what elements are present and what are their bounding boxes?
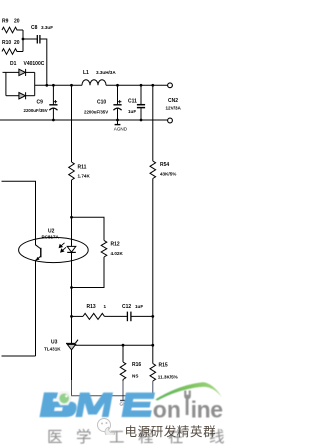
- node R13 branch junction: [70, 315, 73, 318]
- wire U3 ref to divider: [75, 344, 153, 346]
- svg-text:U3: U3: [51, 339, 58, 345]
- wire emitter to left edge: [2, 355, 36, 357]
- svg-text:20: 20: [14, 19, 20, 25]
- diode D1 dual package: [3, 69, 35, 99]
- inductor L1: [82, 80, 106, 86]
- svg-text:20: 20: [14, 40, 20, 46]
- wire to C8: [23, 38, 37, 40]
- svg-text:C11: C11: [128, 98, 137, 104]
- resistor R10: [2, 49, 23, 55]
- wire R11 to LED / node A: [71, 180, 73, 217]
- resistor R16: [122, 345, 124, 362]
- node R54 feed junction: [151, 84, 154, 87]
- svg-text:C12: C12: [122, 304, 131, 310]
- node junction R9-R10-C8: [22, 38, 25, 41]
- wire R12 top branch: [72, 217, 105, 240]
- logo letters BME: [40, 393, 155, 418]
- watermark dark text 电源研发精英群: [125, 421, 225, 440]
- logo leaf swoosh: [155, 382, 222, 400]
- svg-text:D1: D1: [10, 61, 17, 67]
- svg-text:1uF: 1uF: [128, 109, 136, 114]
- wire main top rail (right of L1): [106, 84, 167, 86]
- ground AGND: [117, 120, 119, 124]
- svg-text:C8: C8: [31, 25, 38, 31]
- svg-text:R16: R16: [132, 362, 141, 368]
- node C9 junction: [52, 84, 55, 87]
- wire R13 to C12: [105, 315, 128, 317]
- svg-text:AGND: AGND: [114, 126, 128, 131]
- svg-text:C10: C10: [97, 100, 106, 106]
- svg-text:R15: R15: [159, 363, 168, 369]
- resistor R15: [150, 364, 156, 382]
- svg-text:R9: R9: [2, 19, 9, 25]
- resistor R12: [101, 240, 107, 257]
- node C8 junction: [45, 84, 48, 87]
- svg-text:NS: NS: [132, 373, 138, 378]
- capacitor C10: [113, 85, 121, 120]
- wire bottom rail: [0, 119, 167, 121]
- wire R9/R10 bus: [22, 30, 24, 52]
- wire R11 feed (crosses bottom rail): [71, 85, 73, 162]
- svg-text:3.3uH/3A: 3.3uH/3A: [96, 70, 116, 75]
- wire collector feed from left edge: [2, 181, 36, 245]
- watermark gray caption 医学工程在线: [0, 425, 224, 443]
- op-amp U2 optocoupler PC817A body: [19, 237, 89, 262]
- svg-text:1: 1: [104, 304, 107, 309]
- node R16 top junction: [122, 344, 125, 347]
- resistor R11: [69, 162, 75, 180]
- node R11 feed junction: [70, 84, 73, 87]
- node C10 bottom: [116, 119, 119, 122]
- svg-text:3.3uF: 3.3uF: [41, 25, 53, 30]
- wire LED cathode to U3: [71, 288, 73, 344]
- svg-text:1.74K: 1.74K: [78, 173, 91, 178]
- capacitor C12: [127, 312, 130, 322]
- svg-text:R11: R11: [78, 164, 87, 170]
- capacitor C11: [137, 85, 145, 120]
- svg-text:11.3K/5%: 11.3K/5%: [158, 374, 178, 379]
- svg-text:12V/3A: 12V/3A: [166, 105, 182, 110]
- watermark moon icon: [96, 417, 118, 435]
- logo hexagon dot: [56, 391, 72, 405]
- node C10 junction: [116, 84, 119, 87]
- ground GND: [122, 396, 124, 401]
- svg-text:PC817A: PC817A: [42, 235, 60, 240]
- capacitor C8: [37, 35, 40, 44]
- transistor Q of U2 (phototransistor): [36, 245, 41, 356]
- node C11 junction: [140, 84, 143, 87]
- svg-text:R12: R12: [111, 242, 120, 248]
- node ref-divider junction: [151, 344, 154, 347]
- wire R12 bottom branch: [72, 257, 105, 288]
- wire R54 feed (crosses bottom rail): [152, 85, 154, 161]
- svg-text:4.02K: 4.02K: [111, 251, 124, 256]
- svg-text:R10: R10: [2, 40, 11, 46]
- wire to R13: [72, 315, 84, 317]
- svg-text:1uF: 1uF: [135, 304, 143, 309]
- transistor U3 TL431K shunt regulator: [66, 340, 78, 344]
- resistor R9: [2, 27, 23, 33]
- svg-text:on: on: [153, 397, 181, 423]
- svg-text:V40100C: V40100C: [24, 61, 45, 67]
- wire C12 to divider: [131, 315, 153, 317]
- logo wrench: [184, 391, 191, 416]
- wire C8 to rail: [41, 39, 47, 85]
- light arrows U2: [59, 243, 66, 252]
- svg-text:R54: R54: [160, 162, 169, 168]
- svg-text:2200uF/35V: 2200uF/35V: [84, 110, 108, 115]
- wire main top rail (left of L1): [35, 84, 82, 86]
- node C11 bottom: [140, 119, 143, 122]
- wire R54 to divider: [152, 179, 154, 364]
- svg-text:R13: R13: [87, 304, 96, 310]
- svg-text:CN2: CN2: [168, 98, 178, 104]
- capacitor C9: [49, 85, 57, 120]
- BME online watermark logo: [0, 380, 224, 443]
- svg-text:L1: L1: [83, 70, 89, 76]
- node C9 bottom: [52, 119, 55, 122]
- svg-text:C9: C9: [37, 99, 44, 105]
- resistor R54: [150, 161, 156, 179]
- LED inside U2: [71, 217, 73, 246]
- svg-text:43K/5%: 43K/5%: [160, 172, 176, 177]
- wire U3 anode to ground rail: [71, 350, 73, 380]
- svg-text:TL431K: TL431K: [44, 346, 61, 351]
- svg-text:ine: ine: [191, 397, 223, 423]
- resistor R13: [83, 313, 105, 319]
- svg-text:2200uF/35V: 2200uF/35V: [24, 108, 48, 113]
- connector CN2: [168, 83, 173, 88]
